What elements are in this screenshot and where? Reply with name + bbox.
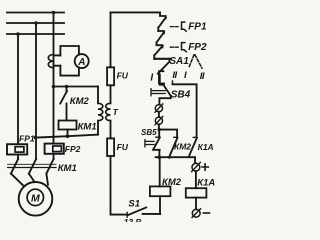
heater FP1 inner	[15, 147, 24, 152]
contact K1A aux tick	[193, 136, 197, 138]
coil KM2 rectangle	[150, 186, 171, 196]
button SB5 blade	[153, 137, 160, 149]
svg-text:FP1: FP1	[19, 134, 35, 144]
svg-text:S1: S1	[128, 198, 140, 209]
wire T primary top lead	[97, 87, 99, 104]
wire ammeter loop	[60, 46, 79, 76]
svg-text:I: I	[150, 73, 153, 84]
wire FP2-SA1 stub	[156, 43, 158, 46]
contact KM2 aux tick	[174, 136, 178, 138]
switch SA1 fixed bar	[154, 58, 169, 60]
svg-text:II: II	[172, 70, 177, 81]
svg-text:SB4: SB4	[171, 90, 191, 101]
coil K1A rectangle	[186, 188, 207, 197]
thermal link dash FP2	[170, 46, 178, 48]
terminal plus slash	[192, 162, 201, 171]
svg-text:КМ2: КМ2	[174, 142, 191, 152]
contact KM2 aux blade	[169, 138, 177, 157]
wire SA1 II branch	[173, 84, 197, 137]
contact KM1 pole 3 blade	[46, 159, 53, 174]
contact FP2 (NC) seat	[158, 31, 164, 33]
wire FP1-FP2 stub	[157, 28, 159, 31]
wire X1-X2	[158, 112, 160, 117]
connector X1 slash	[155, 104, 163, 112]
fuse FU upper rectangle	[107, 67, 114, 85]
wire T secondary top lead	[110, 12, 112, 67]
contact KM2 (power) blade	[60, 91, 67, 104]
wire SA1 to SB4	[160, 75, 164, 85]
svg-text:SA1: SA1	[169, 56, 189, 67]
wire motor lead middle	[29, 174, 34, 182]
connector X2 slash	[155, 116, 163, 124]
switch S1 tick	[126, 212, 128, 217]
wire phase bus L1	[7, 12, 64, 14]
svg-text:А: А	[77, 57, 85, 68]
wire phase C drop	[53, 13, 55, 144]
svg-text:FU: FU	[117, 142, 129, 152]
wire to K1A coil	[195, 171, 197, 188]
node L3 tap	[16, 32, 20, 36]
wire phase A below FP1	[17, 155, 19, 160]
thermal symbol FP2	[182, 43, 187, 52]
wire CT secondary stub bottom	[54, 65, 60, 67]
wire phase B drop	[35, 23, 37, 159]
contact KM2 (power) stub	[66, 87, 68, 92]
svg-text:I: I	[184, 70, 187, 81]
wire KM1 coil bottom	[67, 130, 69, 137]
wire to KM2 coil	[159, 157, 161, 186]
switch SA1 position II tick	[172, 81, 174, 84]
connector X2 circle	[155, 117, 162, 124]
terminal plus stem	[194, 157, 196, 163]
motor M inner circle	[27, 189, 43, 205]
wire X2 to junction	[158, 124, 160, 129]
contact K1A aux blade	[189, 138, 197, 157]
wire K1A coil bottom	[195, 198, 197, 210]
wire KM2 to KM1 coil	[66, 104, 68, 121]
wire control left rail	[111, 156, 128, 215]
SA1 selector dashed link	[189, 55, 202, 68]
wire control bottom rail	[156, 156, 195, 158]
svg-text:КМ2: КМ2	[162, 177, 182, 188]
wire FU to T	[110, 85, 112, 103]
node L1 tap	[52, 11, 56, 15]
wire phase bus L2	[7, 22, 64, 24]
svg-text:К1А: К1А	[197, 178, 215, 189]
wire SB4 bottom	[159, 96, 170, 104]
button SB5 stub	[158, 130, 160, 137]
contact FP1 (NC) seat	[160, 12, 166, 18]
wire S1 to KM2 coil	[143, 213, 161, 215]
fuse FU lower rectangle	[107, 138, 114, 156]
node KM2 aux blade tap	[168, 156, 171, 159]
node KM1 coil return	[66, 134, 70, 138]
wire branch to KM2 aux	[159, 130, 177, 138]
svg-text:FP1: FP1	[188, 21, 207, 32]
svg-text:SB5: SB5	[141, 128, 157, 137]
node SB5 junction	[158, 128, 161, 131]
heater FP2 outer	[45, 144, 64, 154]
terminal minus circle	[192, 209, 200, 217]
wire SB5 bottom	[153, 150, 160, 157]
svg-text:Т: Т	[113, 107, 119, 117]
node phase B tap	[34, 136, 38, 140]
button SB4 actuator	[151, 89, 165, 96]
ammeter PA circle	[75, 54, 89, 68]
svg-text:КМ1: КМ1	[78, 121, 97, 132]
svg-text:13 В: 13 В	[124, 217, 142, 222]
wire motor lead right	[46, 174, 48, 185]
thermal symbol FP1	[182, 22, 187, 31]
coil KM1 rectangle	[59, 121, 77, 130]
svg-text:FP2: FP2	[188, 42, 207, 53]
wire phase A drop	[17, 34, 19, 144]
connector X1 circle	[155, 105, 162, 112]
motor M outer circle	[19, 182, 53, 216]
svg-text:II: II	[200, 71, 205, 82]
switch S1 blade	[127, 207, 146, 215]
button SB4 blade	[164, 85, 171, 96]
switch SA1 blade	[158, 59, 170, 74]
svg-text:FP2: FP2	[65, 144, 81, 154]
transformer T primary winding	[98, 103, 103, 120]
wire phase C below FP2	[53, 154, 55, 159]
node main drop junction	[52, 85, 56, 89]
wire branch to T primary	[54, 86, 99, 88]
wire stub to SA1 bar	[153, 55, 155, 59]
current transformer TA bumps	[48, 55, 53, 68]
svg-text:КМ1: КМ1	[58, 163, 77, 174]
transformer T secondary winding	[106, 103, 111, 120]
switch SA1 bracket	[159, 71, 164, 83]
contact FP1 (NC) blade	[158, 17, 166, 27]
terminal minus slash	[192, 209, 201, 218]
wire control top rail	[111, 11, 161, 13]
terminal plus sign	[202, 164, 208, 170]
button SB5 tick	[156, 136, 160, 138]
wire KM2 coil bottom	[159, 196, 161, 214]
contact KM1 pole 2 blade	[29, 159, 36, 174]
node KM2 branch tap	[65, 85, 69, 89]
thermal link dash FP1	[170, 26, 178, 28]
terminal plus circle	[192, 163, 200, 171]
wire CT secondary stub top	[54, 54, 60, 56]
wire KM1 return to phase B	[36, 135, 99, 138]
node L2 tap	[34, 21, 38, 25]
wire phase bus L3	[7, 33, 64, 35]
wire motor lead left	[11, 174, 24, 187]
wire T secondary bottom lead	[110, 121, 112, 139]
terminal minus sign	[203, 212, 209, 214]
svg-text:К1А: К1А	[198, 142, 214, 152]
node KM2 coil tap	[158, 155, 162, 159]
heater FP1 outer	[7, 144, 27, 154]
wire T primary bottom lead	[97, 121, 99, 135]
contact blade third	[154, 46, 162, 56]
contact KM1 pole 1 blade	[11, 159, 18, 174]
heater FP2 inner	[53, 146, 62, 152]
button SB5 actuator	[145, 140, 154, 147]
contact seat third	[157, 45, 163, 47]
KM1 mechanical link	[8, 163, 56, 165]
svg-text:КМ2: КМ2	[70, 96, 90, 107]
svg-text:М: М	[31, 193, 40, 205]
svg-text:FU: FU	[117, 71, 129, 81]
contact FP2 (NC) blade	[157, 32, 165, 42]
